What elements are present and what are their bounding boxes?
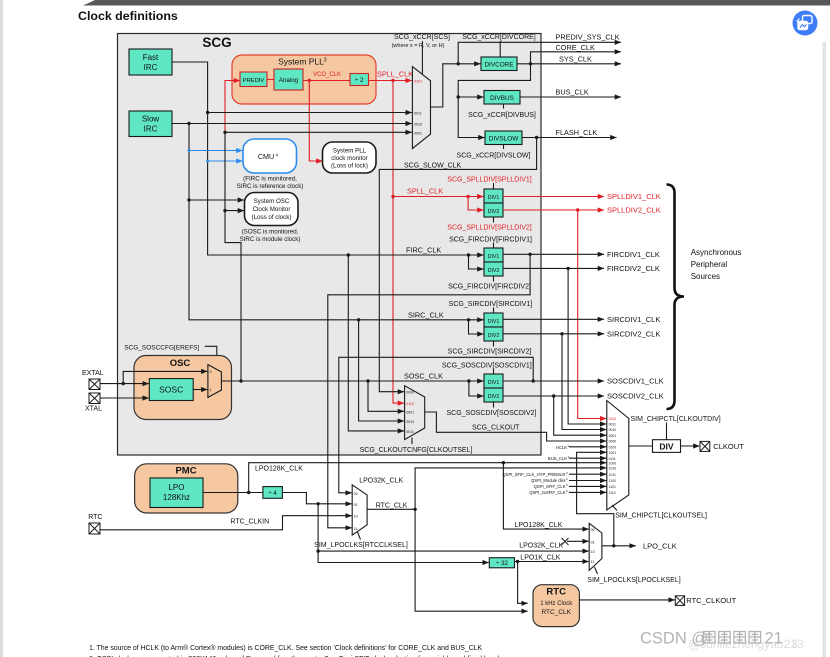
wire EXTAL bypass <box>123 371 207 383</box>
svg-text:System PLL: System PLL <box>278 57 324 67</box>
svg-text:SIM_LPOCLKS[LPOCLKSEL]: SIM_LPOCLKS[LPOCLKSEL] <box>587 577 680 584</box>
svg-text:SCG_xCCR[SCS]: SCG_xCCR[SCS] <box>394 34 450 41</box>
svg-text:System OSC: System OSC <box>254 198 290 205</box>
svg-text:DIV2: DIV2 <box>488 268 500 274</box>
blue image-preview button <box>793 11 818 36</box>
wire QSPI_2xSFIF_CLK stub <box>569 491 606 493</box>
wire FIRCDIV1 to RTC mux <box>328 254 530 528</box>
divider SPLL DIV2 <box>484 203 503 217</box>
wire OSC monitor input SOSC <box>225 210 244 212</box>
wire FIRC_CLK to DIV2 <box>469 255 484 269</box>
svg-text:DIV2: DIV2 <box>488 333 500 339</box>
node sosc riser junction <box>239 379 242 382</box>
wire LPO32K from div4 <box>282 493 351 504</box>
svg-text:(where x = R, V, or H): (where x = R, V, or H) <box>392 43 445 49</box>
SOSC block <box>149 379 193 401</box>
svg-text:DIV1: DIV1 <box>488 319 500 325</box>
node spll div junction <box>391 195 394 198</box>
svg-text:3: 3 <box>324 58 327 64</box>
wire SPLLDIV2 select tick <box>493 217 495 223</box>
wire RTC block out <box>579 599 674 601</box>
RTCCLKSEL mux <box>352 485 367 535</box>
node SOSC/PLL junction <box>223 131 226 134</box>
svg-text:SOSC: SOSC <box>159 385 183 395</box>
divider SIRC DIV1 <box>484 313 503 327</box>
svg-text:PREDIV: PREDIV <box>243 78 265 84</box>
svg-text:DIVCORE: DIVCORE <box>484 62 513 69</box>
divider /32 <box>489 558 514 568</box>
svg-text:SCG_FIRCDIV[FIRCDIV1]: SCG_FIRCDIV[FIRCDIV1] <box>449 236 532 243</box>
node sircdiv2 branch <box>560 332 563 335</box>
wire SOSCDIV2 select tick <box>493 402 495 408</box>
node fircdiv1 branch <box>528 253 531 256</box>
svg-text:CMU: CMU <box>258 152 274 161</box>
wire SOSC top line to mux <box>225 131 412 133</box>
svg-text:SPLL_CLK: SPLL_CLK <box>407 187 443 196</box>
svg-text:SCG_FIRCDIV[FIRCDIV2]: SCG_FIRCDIV[FIRCDIV2] <box>448 284 531 291</box>
svg-text:0011: 0011 <box>406 430 414 434</box>
wire LPO_CLK out <box>602 545 636 547</box>
wire LPO128K to lpoclksel mux <box>503 463 588 529</box>
wire RTC_CLK out <box>367 508 415 510</box>
wire BUS_CLK <box>520 96 621 98</box>
system clock mux SCG_xCCR[SCS] <box>412 67 430 149</box>
svg-text:10: 10 <box>354 515 358 519</box>
svg-text:(FIRC is monitored,: (FIRC is monitored, <box>243 176 297 183</box>
System PLL clock monitor block <box>323 142 377 173</box>
svg-text:RTC: RTC <box>546 587 566 598</box>
node SPLL_CLK junction <box>391 79 394 82</box>
wire SCG_SLOW_CLK <box>379 138 536 392</box>
wire RTC_CLK to CHIPCTL mux <box>415 468 606 509</box>
svg-text:11: 11 <box>591 560 595 564</box>
svg-text:XTAL: XTAL <box>85 406 102 413</box>
svg-text:DIV2: DIV2 <box>488 209 500 215</box>
svg-text:SCG_xCCR[DIVCORE]: SCG_xCCR[DIVCORE] <box>462 34 536 41</box>
svg-text:DIVSLOW: DIVSLOW <box>489 136 519 143</box>
svg-text:RTC_CLK: RTC_CLK <box>376 502 408 509</box>
node soscdiv2 branch <box>552 394 555 397</box>
divider /2 <box>350 74 369 86</box>
svg-text:SIRCDIV1_CLK: SIRCDIV1_CLK <box>607 315 660 324</box>
SIRC block (Slow IRC) <box>129 111 172 137</box>
wire LPO128K_CLK line <box>249 463 607 493</box>
wire SIRCDIV2_CLK out <box>503 333 604 335</box>
svg-text:(Loss of lock): (Loss of lock) <box>331 163 368 170</box>
wire PREDIV to Analog <box>267 79 274 81</box>
node lpo junction <box>247 491 250 494</box>
divider DIVBUS <box>484 91 520 105</box>
svg-text:SPLLDIV2_CLK: SPLLDIV2_CLK <box>607 206 661 215</box>
svg-text:LPO128K_CLK: LPO128K_CLK <box>515 522 563 529</box>
wire SOSC_CLK line <box>241 380 484 382</box>
svg-text:10: 10 <box>591 550 595 554</box>
wire QSPI_Module clks stub <box>569 480 606 482</box>
wire SIRCDIV1_CLK out <box>503 318 604 320</box>
wire SCS select <box>421 41 423 74</box>
wire DIVBUS select tick <box>503 104 505 109</box>
wire SIRC riser <box>189 124 484 320</box>
PMC block <box>135 464 238 513</box>
svg-text:IRC: IRC <box>144 63 158 72</box>
svg-text:0010: 0010 <box>609 428 617 432</box>
wire FLASH_CLK <box>522 137 617 139</box>
SIM_CHIPCTL CLKOUTSEL mux <box>607 401 629 511</box>
wire FIRCDIV2 to CHIPCTL mux <box>568 268 606 424</box>
wire OSC mux out <box>221 380 241 382</box>
node blue tap SIRC <box>188 149 191 152</box>
node extal tap <box>122 382 125 385</box>
node sirc clkout tap <box>357 318 360 321</box>
wire div2 to system mux (SPLL_CLK) <box>369 80 412 82</box>
wire DIVCORE select <box>499 41 501 57</box>
wire SIRC to mux <box>172 123 412 125</box>
wire SPLLDIV2 to CHIPCTL mux <box>578 210 607 419</box>
svg-text:BUS_CLK: BUS_CLK <box>548 456 567 461</box>
svg-text:0001: 0001 <box>414 132 422 136</box>
svg-text:(Loss of clock): (Loss of clock) <box>252 214 292 221</box>
divider FIRC DIV1 <box>484 248 503 262</box>
svg-text:DIV1: DIV1 <box>488 254 500 260</box>
wire SPLLDIV1_CLK out <box>503 196 604 198</box>
svg-text:SCG_xCCR[DIVBUS]: SCG_xCCR[DIVBUS] <box>468 112 536 119</box>
svg-text:SIRCDIV2_CLK: SIRCDIV2_CLK <box>607 330 660 339</box>
svg-text:LPO1K_CLK: LPO1K_CLK <box>520 554 560 561</box>
wire SOSCDIV1_CLK out <box>503 380 604 382</box>
node sirc div2 tap <box>467 318 470 321</box>
CMU block <box>243 139 297 173</box>
svg-text:OSC: OSC <box>170 358 191 369</box>
svg-text:0011: 0011 <box>609 423 616 427</box>
svg-text:0001: 0001 <box>406 410 414 414</box>
svg-text:RTC_CLKOUT: RTC_CLKOUT <box>686 596 736 605</box>
node lpo1k branch <box>516 560 519 563</box>
svg-text:SCG_xCCR[DIVSLOW]: SCG_xCCR[DIVSLOW] <box>457 153 531 160</box>
svg-text:0111: 0111 <box>609 457 616 461</box>
node lpo clk junction <box>612 544 615 547</box>
wire DIVSLOW select tick <box>503 145 505 150</box>
wire FIRCDIV1_CLK out <box>503 253 604 255</box>
node FIRC junction <box>206 111 209 114</box>
divider DIVCORE <box>481 57 517 71</box>
wire LPO1K out <box>515 561 589 563</box>
svg-text:SCG_SOSCDIV[SOSCDIV2]: SCG_SOSCDIV[SOSCDIV2] <box>446 410 536 417</box>
wire clkoutdiv select <box>666 423 668 440</box>
pin CLKOUT <box>700 441 710 451</box>
svg-text:1: 1 <box>210 388 212 392</box>
wire LPO32K disabled stub <box>567 540 589 542</box>
wire LPO1K to RTC block <box>518 562 528 604</box>
node SIRC monitor tap <box>187 198 190 201</box>
svg-text:SCG_SPLLDIV[SPLLDIV2]: SCG_SPLLDIV[SPLLDIV2] <box>447 225 531 232</box>
wire CORE_CLK <box>531 52 622 64</box>
svg-text:SCG_SOSCCFG[EREFS]: SCG_SOSCCFG[EREFS] <box>124 344 199 351</box>
wire FIRCDIV2 select tick <box>493 276 495 282</box>
wire FIRC riser <box>208 113 484 256</box>
svg-text:CORE_CLK: CORE_CLK <box>556 43 595 52</box>
svg-text:SCG: SCG <box>202 35 231 50</box>
svg-text:0100: 0100 <box>609 445 617 449</box>
wire DIVCORE out SYS_CLK <box>517 63 621 65</box>
wire PREDIV_SYS_CLK <box>458 42 621 64</box>
svg-text:1100: 1100 <box>609 479 616 483</box>
svg-text:1001: 1001 <box>609 451 617 455</box>
svg-text:DIV1: DIV1 <box>488 195 500 201</box>
wire FIRCDIV1 select tick <box>493 243 495 249</box>
svg-text:SYS_CLK: SYS_CLK <box>559 55 592 64</box>
wire SOSCDIV1 to RTC mux <box>339 357 533 493</box>
divider DIV (CLKOUTDIV) <box>653 440 681 453</box>
wire SPLLDIV2_CLK out <box>503 209 604 211</box>
svg-text:LPO_CLK: LPO_CLK <box>643 542 677 551</box>
svg-text:Slow: Slow <box>142 115 160 124</box>
svg-text:DIV: DIV <box>659 441 674 451</box>
svg-text:(SOSC is monitored,: (SOSC is monitored, <box>242 229 299 236</box>
wire SOSCDIV1 select tick <box>493 369 495 375</box>
svg-text:Sources: Sources <box>691 272 720 281</box>
svg-text:1 kHz Clock: 1 kHz Clock <box>540 601 573 607</box>
svg-text:SCG_SOSCDIV[SOSCDIV1]: SCG_SOSCDIV[SOSCDIV1] <box>442 362 532 369</box>
svg-text:DIV1: DIV1 <box>488 380 500 386</box>
wire rtcclksel label tick <box>358 532 361 540</box>
svg-text:SIRC is reference clock): SIRC is reference clock) <box>237 183 304 190</box>
svg-text:128Khz: 128Khz <box>163 493 190 502</box>
pin XTAL <box>89 393 100 404</box>
wire OSC monitor input SIRC <box>189 199 244 201</box>
node lpo32k to mux tap <box>316 549 319 552</box>
svg-text:LPO128K_CLK: LPO128K_CLK <box>255 466 303 473</box>
svg-text:00: 00 <box>354 492 358 496</box>
node SIRC junction <box>187 122 190 125</box>
wire LPO_CLK to CHIPCTL mux <box>577 452 614 546</box>
wire SOSC_CLK to DIV2 <box>469 381 484 396</box>
wire clkout mux out SCG_CLKOUT <box>425 412 607 441</box>
svg-text:1000: 1000 <box>609 462 617 466</box>
svg-text:LPO: LPO <box>168 483 184 492</box>
svg-text:DIV2: DIV2 <box>488 394 500 400</box>
wire clkoutsel label tick <box>411 438 413 445</box>
svg-text:00: 00 <box>591 528 595 532</box>
wire RTC_CLKIN <box>100 516 352 530</box>
svg-text:CLKOUT: CLKOUT <box>713 442 744 451</box>
svg-text:SPLLDIV1_CLK: SPLLDIV1_CLK <box>607 192 661 201</box>
svg-text:01: 01 <box>354 503 358 507</box>
node sosc div2 tap <box>467 379 470 382</box>
wire BUS_CLK stub <box>569 457 606 459</box>
svg-text:FIRCDIV2_CLK: FIRCDIV2_CLK <box>607 264 660 273</box>
LPOCLKSEL mux <box>589 523 602 570</box>
brace Asynchronous Peripheral Sources <box>667 185 685 410</box>
svg-text:QSPI_SFIF_CLK_HYP_PREMUX: QSPI_SFIF_CLK_HYP_PREMUX <box>502 472 565 477</box>
svg-text:SCG_SIRCDIV[SIRCDIV2]: SCG_SIRCDIV[SIRCDIV2] <box>448 349 532 356</box>
svg-text:RTC_CLK: RTC_CLK <box>541 609 571 616</box>
svg-text:FIRCDIV1_CLK: FIRCDIV1_CLK <box>607 250 660 259</box>
node prediv sys junction <box>457 62 460 65</box>
right scrollbar strip <box>823 42 826 657</box>
svg-text:RTC: RTC <box>88 514 102 521</box>
RTC block <box>533 585 579 627</box>
svg-text:FLASH_CLK: FLASH_CLK <box>556 128 598 137</box>
node blue tap FIRC <box>206 160 209 163</box>
wire SOSC to clkout mux <box>368 381 404 411</box>
svg-text:Peripheral: Peripheral <box>691 260 728 269</box>
wire LPO out <box>203 492 263 494</box>
svg-text:BUS_CLK: BUS_CLK <box>556 88 589 97</box>
wire chipctl mux out <box>629 445 652 447</box>
divider SOSC DIV2 <box>484 388 503 402</box>
SCG CLKOUT mux <box>405 386 425 440</box>
wire chipctl clkoutsel label tick <box>612 505 617 511</box>
SCG block <box>118 34 542 456</box>
svg-text:SIRC is module clock): SIRC is module clock) <box>240 236 301 243</box>
wire SIRC to clkout mux <box>359 320 404 421</box>
svg-text:CSDN @: CSDN @ <box>640 630 708 648</box>
svg-text:0001: 0001 <box>609 434 617 438</box>
svg-text:SIRC_CLK: SIRC_CLK <box>408 310 444 319</box>
svg-text:QSPI_SFIF_CLK: QSPI_SFIF_CLK <box>534 484 566 489</box>
divider SIRC DIV2 <box>484 327 503 341</box>
svg-text:Clock Monitor: Clock Monitor <box>253 206 291 213</box>
svg-text:Analog: Analog <box>279 77 299 84</box>
wire SIRC_CLK to DIV2 <box>469 320 484 334</box>
svg-text:0000: 0000 <box>406 391 414 395</box>
OSC block <box>134 356 232 420</box>
node soscdiv1 branch <box>532 379 535 382</box>
svg-text:DIVBUS: DIVBUS <box>490 95 514 102</box>
wire LPO32K to lpoclksel mux <box>318 550 589 552</box>
svg-text:LPO32K_CLK: LPO32K_CLK <box>359 477 403 484</box>
svg-text:LPO32K_CLK: LPO32K_CLK <box>519 543 563 550</box>
node lpo32k branch <box>316 502 319 505</box>
svg-text:SCG_SPLLDIV[SPLLDIV1]: SCG_SPLLDIV[SPLLDIV1] <box>447 176 531 183</box>
System OSC Clock Monitor block <box>245 193 299 226</box>
svg-text:÷ 32: ÷ 32 <box>496 560 509 567</box>
svg-text:0011: 0011 <box>414 111 422 115</box>
wire VCO to PLL monitor <box>309 81 322 162</box>
pin EXTAL <box>89 379 100 390</box>
svg-text:clock monitor: clock monitor <box>331 155 367 162</box>
wire EXTAL to SOSC <box>100 383 149 385</box>
svg-text:0110: 0110 <box>609 417 616 421</box>
wire QSPI_SFIF_CLK stub <box>569 485 606 487</box>
divider FIRC DIV2 <box>484 262 503 276</box>
wire XTAL to SOSC <box>100 397 149 399</box>
node VCO_CLK junction <box>308 79 311 82</box>
svg-text:÷ 2: ÷ 2 <box>355 77 364 84</box>
svg-text:System PLL: System PLL <box>333 148 367 155</box>
svg-text:Fast: Fast <box>143 53 159 62</box>
node core clk junction <box>529 62 532 65</box>
left page edge strip <box>0 0 3 657</box>
wire RTC_CLK to RTC block <box>415 509 528 611</box>
svg-text:SIM_LPOCLKS[RTCCLKSEL]: SIM_LPOCLKS[RTCCLKSEL] <box>314 542 408 549</box>
svg-text:1101: 1101 <box>609 485 616 489</box>
wire CMU input from FIRC <box>208 160 243 162</box>
svg-text:0000: 0000 <box>609 440 617 444</box>
svg-text:1. The source of HCLK (to Arm®: 1. The source of HCLK (to Arm® Cortex® m… <box>89 644 483 652</box>
svg-text:SOSCDIV2_CLK: SOSCDIV2_CLK <box>607 392 664 401</box>
svg-text:VCO_CLK: VCO_CLK <box>313 72 341 78</box>
wire SOSCDIV2 to CHIPCTL mux <box>554 396 607 435</box>
svg-text:QSPI_Module clks: QSPI_Module clks <box>531 478 565 483</box>
svg-text:÷ 4: ÷ 4 <box>268 490 277 497</box>
svg-text:QSPI_2xSFIF_CLK: QSPI_2xSFIF_CLK <box>529 490 566 495</box>
wire SIRCDIV2 to CHIPCTL mux <box>562 334 606 430</box>
svg-text:1110: 1110 <box>609 491 616 495</box>
svg-text:0010: 0010 <box>406 420 414 424</box>
divider SPLL DIV1 <box>484 189 503 203</box>
OSC bypass mux <box>208 365 222 398</box>
svg-text:IRC: IRC <box>144 125 158 134</box>
divider DIVSLOW <box>485 131 522 145</box>
node SOSC monitor tap <box>223 209 226 212</box>
svg-text:0110: 0110 <box>406 402 414 406</box>
wire EREFS select <box>205 346 217 369</box>
wire mux out to DIVCORE <box>431 64 481 107</box>
svg-text:PREDIV_SYS_CLK: PREDIV_SYS_CLK <box>556 33 620 42</box>
wire SOSC to OSC mux <box>193 389 207 391</box>
svg-text:Asynchronous: Asynchronous <box>691 248 742 257</box>
wire HCLK stub <box>569 446 606 448</box>
node splldiv2 branch <box>576 208 579 211</box>
node firc clkout tap <box>347 253 350 256</box>
wire SIRCDIV2 select tick <box>493 341 495 347</box>
wire SPLL_CLK to DIV1 <box>393 196 484 198</box>
wire core to divbus/divslow <box>458 64 530 138</box>
FIRC block (Fast IRC) <box>129 49 172 75</box>
wire QSPI_SFIF_CLK_HYP_PREMUX stub <box>569 473 606 475</box>
svg-text:01: 01 <box>591 540 595 544</box>
top dark bar <box>83 0 830 6</box>
pin RTC <box>89 523 100 534</box>
svg-text:3: 3 <box>791 637 798 651</box>
System PLL block <box>232 55 376 104</box>
wire FIRC to mux <box>172 62 412 113</box>
wire FIRCDIV2_CLK out <box>503 267 604 269</box>
PLL analog block <box>274 69 303 90</box>
svg-text:SPLL_CLK: SPLL_CLK <box>377 70 413 79</box>
wire Analog to div2 (VCO_CLK) <box>303 80 350 82</box>
node divbus junction <box>457 95 460 98</box>
svg-text:HCLK: HCLK <box>556 445 567 450</box>
svg-text:SOSCDIV1_CLK: SOSCDIV1_CLK <box>607 377 664 386</box>
svg-text:SCG_CLKOUTCNFG[CLKOUTSEL]: SCG_CLKOUTCNFG[CLKOUTSEL] <box>360 447 473 454</box>
svg-text:SCG_SIRCDIV[SIRCDIV1]: SCG_SIRCDIV[SIRCDIV1] <box>449 301 533 308</box>
svg-text:1011: 1011 <box>609 473 616 477</box>
svg-text:1010: 1010 <box>609 467 617 471</box>
wire SPLL_CLK to DIV2 <box>468 197 483 211</box>
svg-text:FIRC_CLK: FIRC_CLK <box>406 246 441 255</box>
svg-text:EXTAL: EXTAL <box>82 370 104 377</box>
node firc div2 tap <box>467 253 470 256</box>
wire SPLL_CLK down to dividers and clkout mux <box>393 81 404 404</box>
wire DIV out to CLKOUT pad <box>681 445 700 447</box>
node spll div2 tap <box>466 195 469 198</box>
wire SPLLDIV1 select tick <box>493 183 495 189</box>
svg-text:11: 11 <box>354 527 358 531</box>
prescaler PREDIV <box>240 72 267 87</box>
svg-text:21: 21 <box>765 630 783 648</box>
wire SOSC riser <box>225 132 241 381</box>
divider SOSC DIV1 <box>484 374 503 388</box>
node fircdiv2 branch <box>566 267 569 270</box>
svg-text:SIM_CHIPCTL[CLKOUTSEL]: SIM_CHIPCTL[CLKOUTSEL] <box>615 512 707 519</box>
wire SOSC_CLK to PREDIV <box>225 81 240 133</box>
wire divbus feed <box>458 96 483 98</box>
svg-text:Clock definitions: Clock definitions <box>78 9 178 23</box>
wire FIRC to clkout mux <box>348 255 404 431</box>
wire CMU input from SIRC <box>189 150 243 152</box>
